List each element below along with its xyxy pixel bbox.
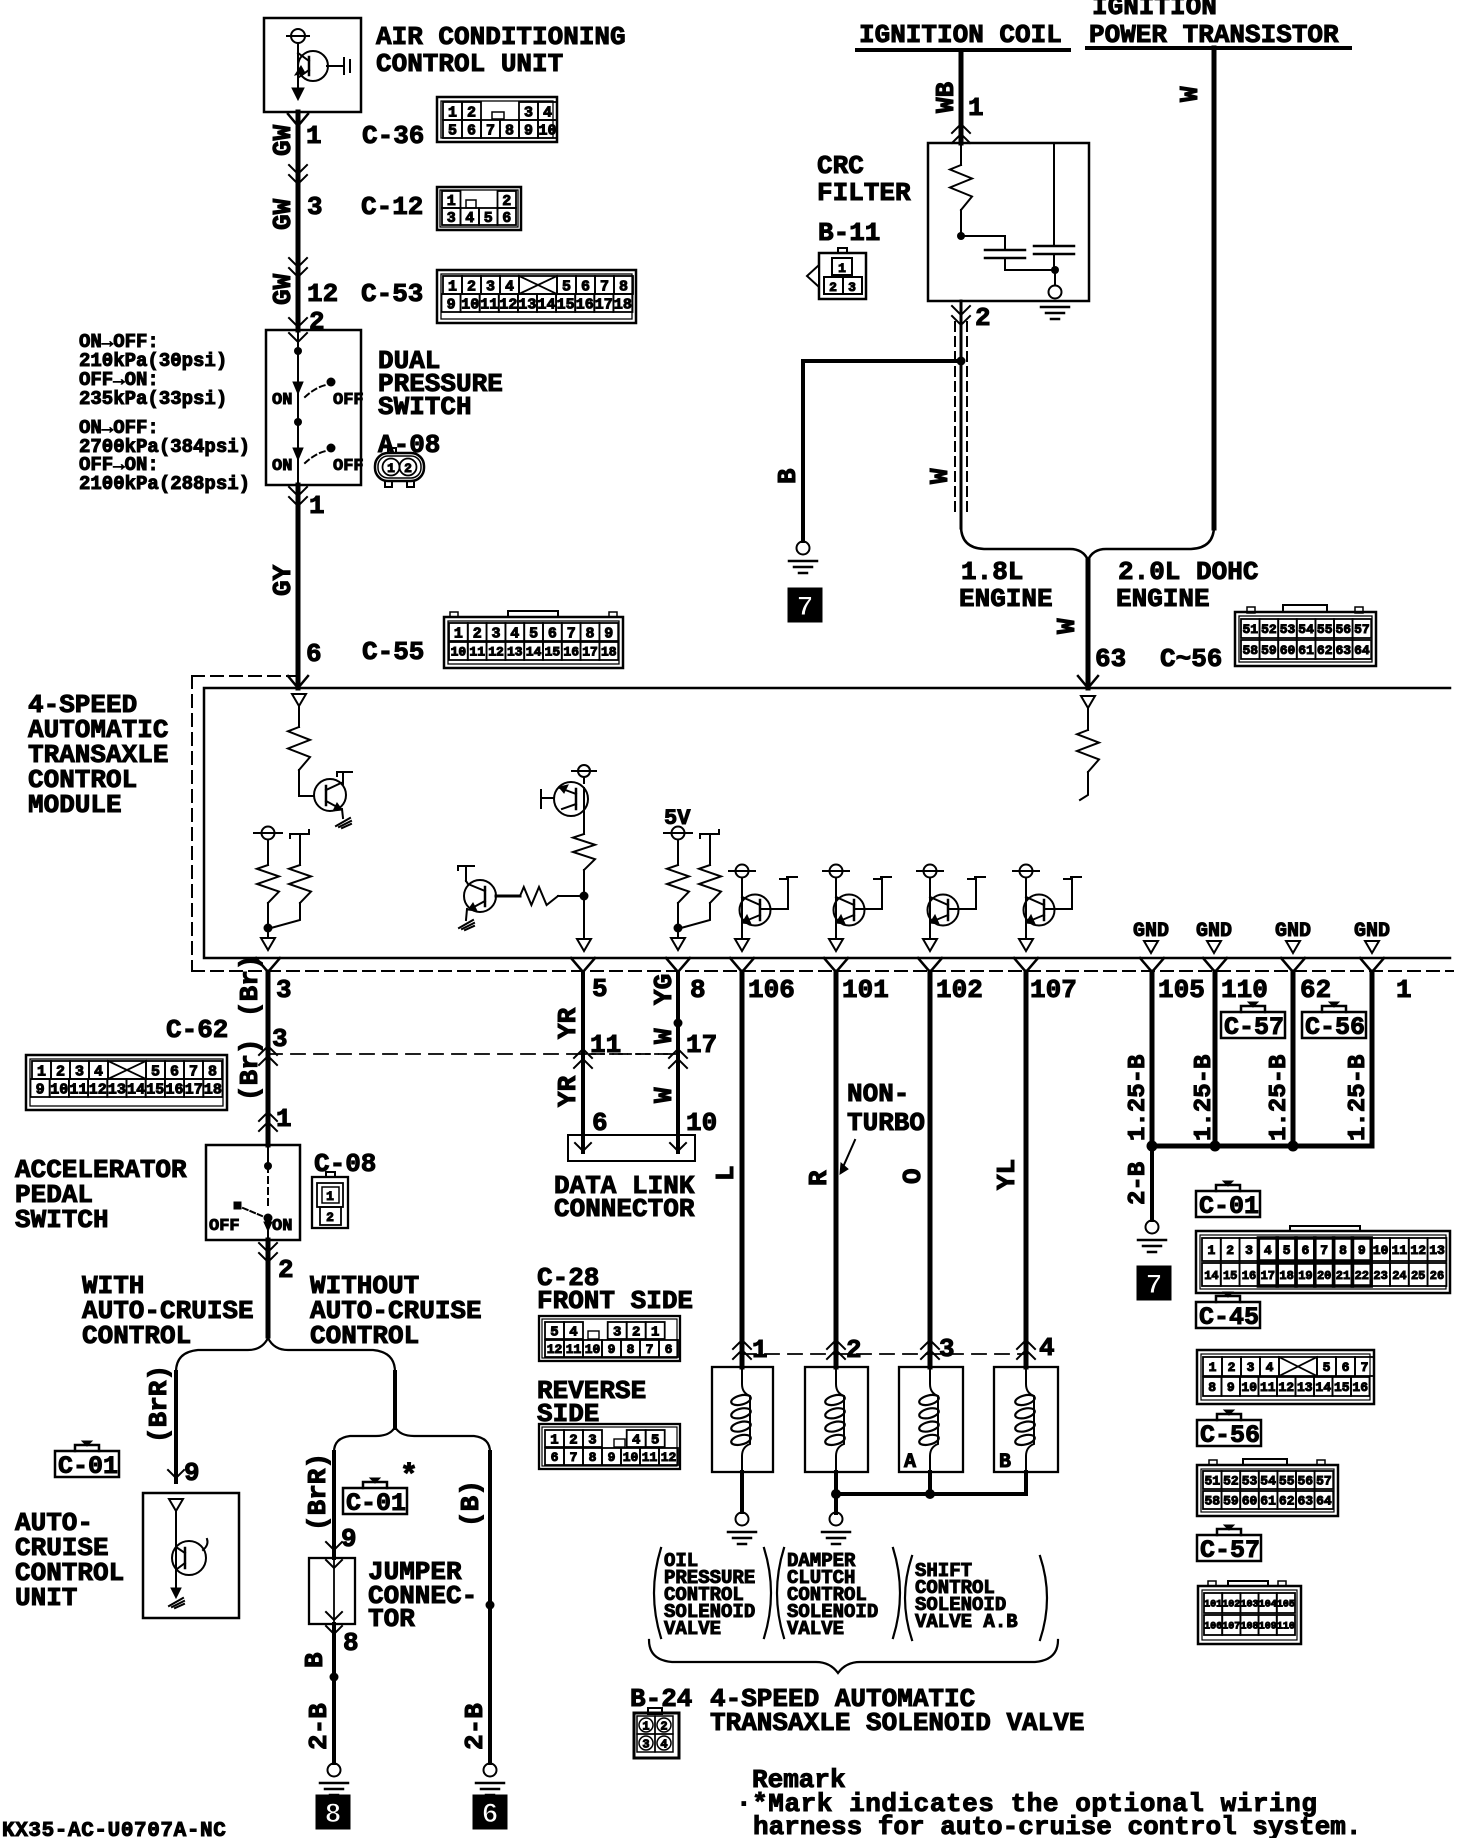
svg-text:CRC: CRC <box>817 151 864 181</box>
wire W to module pin 63 <box>1052 560 1222 688</box>
svg-text:3: 3 <box>75 1063 84 1080</box>
svg-text:1: 1 <box>387 461 395 476</box>
svg-text:7: 7 <box>567 625 576 642</box>
module internal: pin6 input transistor <box>288 694 352 828</box>
svg-text:235kPa(33psi): 235kPa(33psi) <box>79 388 227 410</box>
svg-text:63: 63 <box>1095 644 1126 674</box>
wire 2 below CRC filter (shielded) <box>952 301 970 528</box>
svg-text:12: 12 <box>661 1450 677 1465</box>
svg-text:2.0L DOHC: 2.0L DOHC <box>1118 557 1258 587</box>
svg-text:1: 1 <box>968 93 984 123</box>
svg-text:5: 5 <box>651 1433 659 1449</box>
svg-text:C-45: C-45 <box>1199 1303 1259 1332</box>
svg-text:102: 102 <box>936 975 983 1005</box>
svg-text:3: 3 <box>276 975 292 1005</box>
ground in CRC filter <box>1041 266 1069 319</box>
svg-text:GND: GND <box>1133 920 1169 943</box>
labels DATA LINK CONNECTOR <box>554 1171 695 1224</box>
connector C-56 flag (upper) <box>1302 1002 1366 1042</box>
svg-text:3: 3 <box>939 1334 955 1364</box>
svg-text:WB: WB <box>931 81 961 113</box>
svg-text:13: 13 <box>507 645 523 660</box>
svg-text:W: W <box>649 1087 679 1103</box>
svg-text:1: 1 <box>1207 1243 1215 1258</box>
svg-text:105: 105 <box>1277 1600 1295 1611</box>
ground (jumper branch) <box>320 1764 348 1796</box>
svg-text:4: 4 <box>94 1063 103 1080</box>
svg-text:CONNECTOR: CONNECTOR <box>554 1194 695 1224</box>
svg-text:C-53: C-53 <box>361 279 423 309</box>
svg-text:ON: ON <box>272 457 292 476</box>
wire pin2 of pedal switch <box>259 1240 294 1336</box>
svg-text:6: 6 <box>548 625 557 642</box>
svg-text:2: 2 <box>473 625 482 642</box>
svg-text:2: 2 <box>278 1255 294 1285</box>
svg-text:18: 18 <box>614 296 632 313</box>
svg-text:16: 16 <box>165 1081 183 1098</box>
svg-text:3: 3 <box>642 1738 649 1752</box>
svg-text:1: 1 <box>276 1104 292 1134</box>
svg-text:FILTER: FILTER <box>817 178 911 208</box>
svg-text:SWITCH: SWITCH <box>15 1205 109 1235</box>
svg-text:12: 12 <box>488 645 504 660</box>
svg-text:FRONT SIDE: FRONT SIDE <box>537 1286 693 1316</box>
dash-dot tie line at DLC <box>583 1053 681 1055</box>
module internal: driver transistor Q1 (pin 106) <box>729 865 797 952</box>
svg-text:1: 1 <box>448 278 457 295</box>
connector C-28 reverse side <box>537 1376 646 1429</box>
svg-text:B-11: B-11 <box>818 218 880 248</box>
svg-text:6: 6 <box>482 1800 499 1831</box>
svg-text:13: 13 <box>1297 1380 1313 1395</box>
svg-text:3: 3 <box>1245 1243 1253 1258</box>
resistor in CRC filter <box>950 143 972 236</box>
svg-text:2: 2 <box>467 104 476 121</box>
svg-text:11: 11 <box>69 1081 87 1098</box>
wire 1.25-B (pin 62) <box>1281 958 1305 1146</box>
pin labels 105 110 62 1 <box>1158 975 1412 1005</box>
svg-text:C-57: C-57 <box>1200 1536 1260 1565</box>
wire (Br) pin3 down to accelerator pedal switch <box>256 958 280 1145</box>
svg-text:NON-: NON- <box>847 1079 909 1109</box>
svg-text:105: 105 <box>1158 975 1205 1005</box>
svg-text:17: 17 <box>595 296 613 313</box>
module internal: driver transistor Q4 (pin 107) <box>1013 865 1081 952</box>
connector B-11 <box>807 248 866 299</box>
ground ref 7 (black box) <box>788 588 822 624</box>
wire B to ground with 7 <box>803 357 966 542</box>
svg-text:TOR: TOR <box>368 1604 415 1634</box>
svg-text:60: 60 <box>1280 643 1296 658</box>
label: AIR CONDITIONING CONTROL UNIT <box>376 22 626 79</box>
svg-text:7: 7 <box>189 1063 198 1080</box>
svg-text:107: 107 <box>1222 1622 1240 1633</box>
svg-text:TURBO: TURBO <box>847 1108 925 1138</box>
svg-text:14: 14 <box>1315 1380 1331 1395</box>
svg-text:61: 61 <box>1260 1494 1276 1509</box>
svg-text:18: 18 <box>1279 1269 1293 1283</box>
svg-text:56: 56 <box>1335 622 1351 637</box>
svg-text:5: 5 <box>529 625 538 642</box>
svg-text:9: 9 <box>36 1081 45 1098</box>
svg-text:11: 11 <box>480 296 498 313</box>
svg-text:54: 54 <box>1260 1474 1276 1489</box>
connector C-36 <box>362 97 557 151</box>
svg-text:16: 16 <box>1242 1269 1256 1283</box>
svg-text:110: 110 <box>1221 975 1268 1005</box>
svg-text:55: 55 <box>1317 622 1333 637</box>
svg-text:15: 15 <box>557 296 575 313</box>
connector C-57 flag (upper) <box>1221 1002 1285 1042</box>
svg-text:9: 9 <box>604 625 613 642</box>
pressure value labels <box>79 331 250 495</box>
svg-text:GY: GY <box>268 564 298 596</box>
svg-text:5: 5 <box>1283 1243 1291 1258</box>
underbrace B-24 <box>649 1640 1058 1673</box>
svg-text:2: 2 <box>660 1720 667 1734</box>
svg-text:10: 10 <box>461 296 479 313</box>
svg-text:3: 3 <box>491 625 500 642</box>
svg-text:C-12: C-12 <box>361 192 423 222</box>
svg-text:VALVE: VALVE <box>787 1618 844 1640</box>
svg-text:C-36: C-36 <box>362 121 424 151</box>
wire 1.25-B (pin 110) <box>1203 958 1227 1146</box>
ground ref 6 (black box) <box>473 1795 507 1831</box>
svg-text:KX35-AC-U0707A-NC: KX35-AC-U0707A-NC <box>2 1820 226 1838</box>
svg-text:VALVE A.B: VALVE A.B <box>915 1611 1018 1633</box>
svg-text:4: 4 <box>1264 1243 1272 1258</box>
svg-text:4: 4 <box>1039 1333 1055 1363</box>
svg-text:14: 14 <box>537 296 555 313</box>
svg-text:ENGINE: ENGINE <box>959 584 1053 614</box>
engine variant brace <box>961 526 1214 560</box>
svg-text:8: 8 <box>627 1342 635 1357</box>
data link connector box <box>568 1135 695 1161</box>
wire (B) right sub-branch to ground 6 <box>456 1452 495 1763</box>
module internal: pin5 comparator pair <box>458 765 596 951</box>
module internal: pin63 resistor <box>1077 696 1099 800</box>
svg-text:7: 7 <box>1320 1243 1328 1258</box>
wire GW from A/C unit down to dual pressure switch <box>288 112 308 330</box>
module internal: driver transistor Q3 (pin 102) <box>917 865 985 952</box>
svg-text:SWITCH: SWITCH <box>378 392 472 422</box>
connector C-08 <box>312 1149 376 1228</box>
svg-text:AIR CONDITIONING: AIR CONDITIONING <box>376 22 626 52</box>
wire YL (pin 107) to solenoid 4 <box>1014 958 1038 1367</box>
connector B-24 <box>634 1708 679 1758</box>
wire YR (pin5) to DLC pin6 <box>571 958 595 1152</box>
svg-text:8: 8 <box>690 975 706 1005</box>
svg-text:52: 52 <box>1261 622 1277 637</box>
svg-text:60: 60 <box>1242 1494 1258 1509</box>
labels AUTO-CRUISE CONTROL UNIT <box>15 1508 124 1613</box>
svg-text:2: 2 <box>467 278 476 295</box>
wire WB from ignition coil <box>952 52 970 143</box>
svg-text:6: 6 <box>170 1063 179 1080</box>
svg-text:8: 8 <box>343 1628 359 1658</box>
svg-text:10: 10 <box>538 122 556 139</box>
svg-text:4: 4 <box>510 625 519 642</box>
svg-text:64: 64 <box>1354 643 1370 658</box>
svg-text:101: 101 <box>842 975 889 1005</box>
svg-text:14: 14 <box>1204 1269 1218 1283</box>
ground bus for 105/110/62/1 <box>1147 1141 1373 1152</box>
svg-text:58: 58 <box>1242 643 1258 658</box>
svg-text:1: 1 <box>1209 1360 1217 1375</box>
svg-text:C-57: C-57 <box>1224 1013 1284 1042</box>
labels ACCELERATOR PEDAL SWITCH <box>15 1155 187 1235</box>
svg-text:3: 3 <box>307 192 323 222</box>
svg-text:62: 62 <box>1300 975 1331 1005</box>
ground (right) <box>1138 1221 1166 1253</box>
svg-text:6: 6 <box>467 122 476 139</box>
svg-text:C-56: C-56 <box>1200 1421 1260 1450</box>
connector C-12 <box>361 187 521 230</box>
svg-text:13: 13 <box>518 296 536 313</box>
svg-text:9: 9 <box>184 1458 200 1488</box>
svg-text:2-B: 2-B <box>460 1703 490 1750</box>
svg-text:59: 59 <box>1261 643 1277 658</box>
svg-text:4: 4 <box>632 1433 640 1449</box>
svg-text:12: 12 <box>547 1342 563 1357</box>
labels CRC FILTER B-11 <box>817 151 911 248</box>
jumper connector box <box>309 1558 355 1624</box>
svg-text:C-01: C-01 <box>58 1452 118 1481</box>
svg-text:GW: GW <box>268 198 298 230</box>
ground (B branch) <box>476 1764 504 1796</box>
second split brace <box>334 1427 490 1452</box>
svg-text:UNIT: UNIT <box>15 1583 77 1613</box>
svg-text:6: 6 <box>581 278 590 295</box>
svg-text:62: 62 <box>1317 643 1333 658</box>
solenoid common bus <box>831 1472 1026 1513</box>
label: 4-SPEED AUTOMATIC TRANSAXLE CONTROL MODULE <box>28 690 168 820</box>
svg-text:110: 110 <box>1277 1622 1295 1633</box>
svg-text:2: 2 <box>56 1063 65 1080</box>
svg-text:*: * <box>400 1460 418 1494</box>
svg-text:YG: YG <box>649 974 679 1005</box>
svg-text:OFF: OFF <box>333 457 364 476</box>
wire W ignition power transistor <box>1175 48 1214 528</box>
svg-text:8: 8 <box>619 278 628 295</box>
svg-text:2100kPa(288psi): 2100kPa(288psi) <box>79 473 250 495</box>
connector C-01 (left) <box>55 1441 119 1481</box>
connector C-56 pin box (lower) <box>1197 1459 1338 1516</box>
svg-text:W: W <box>1052 618 1082 634</box>
svg-text:harness for auto-cruise contro: harness for auto-cruise control system. <box>753 1812 1362 1838</box>
svg-text:7: 7 <box>646 1342 654 1357</box>
svg-text:63: 63 <box>1297 1494 1313 1509</box>
svg-text:GND: GND <box>1354 920 1390 943</box>
svg-text:11: 11 <box>590 1030 621 1060</box>
svg-text:1.25-B: 1.25-B <box>1125 1055 1152 1141</box>
svg-text:2: 2 <box>846 1335 862 1365</box>
svg-text:4: 4 <box>660 1738 667 1752</box>
svg-text:16: 16 <box>1352 1380 1368 1395</box>
svg-text:TRANSAXLE SOLENOID VALVE: TRANSAXLE SOLENOID VALVE <box>710 1708 1084 1738</box>
solenoid coil box 1 <box>712 1367 773 1472</box>
svg-text:1: 1 <box>448 104 457 121</box>
labels DUAL PRESSURE SWITCH / A-08 <box>378 346 503 460</box>
svg-text:12: 12 <box>1410 1243 1426 1258</box>
svg-text:6: 6 <box>665 1342 673 1357</box>
svg-text:25: 25 <box>1411 1269 1425 1283</box>
svg-text:YR: YR <box>553 1075 583 1107</box>
svg-text:7: 7 <box>486 122 495 139</box>
svg-text:11: 11 <box>469 645 485 660</box>
wire (BrR) through jumper connector <box>326 1452 342 1558</box>
svg-text:1: 1 <box>309 491 325 521</box>
solenoid name labels (parenthesised) <box>654 1548 771 1640</box>
svg-text:10: 10 <box>585 1342 601 1357</box>
svg-text:6: 6 <box>1301 1243 1309 1258</box>
split brace with/without auto-cruise <box>176 1338 395 1372</box>
dashed tie line at solenoid pins <box>742 1353 1026 1355</box>
svg-text:C-01: C-01 <box>346 1489 406 1518</box>
svg-text:2: 2 <box>569 1433 577 1449</box>
svg-text:W: W <box>1175 86 1205 102</box>
svg-text:10: 10 <box>451 645 467 660</box>
svg-text:CONTROL UNIT: CONTROL UNIT <box>376 49 563 79</box>
svg-text:4: 4 <box>505 278 514 295</box>
svg-text:O: O <box>898 1168 928 1184</box>
svg-text:57: 57 <box>1354 622 1370 637</box>
diagram id KX35-AC-U0707A-NC <box>2 1820 226 1838</box>
svg-text:109: 109 <box>1259 1622 1277 1633</box>
connector C-55 <box>362 611 623 668</box>
svg-text:15: 15 <box>146 1081 164 1098</box>
svg-text:18: 18 <box>601 645 617 660</box>
svg-text:W: W <box>649 1028 679 1044</box>
svg-text:GW: GW <box>268 124 298 156</box>
svg-text:64: 64 <box>1316 1494 1332 1509</box>
svg-text:(Br): (Br) <box>235 1039 265 1101</box>
svg-text:4: 4 <box>465 210 474 227</box>
svg-text:B: B <box>773 468 803 484</box>
svg-text:21: 21 <box>1336 1269 1350 1283</box>
svg-text:1.25-B: 1.25-B <box>1191 1055 1218 1141</box>
svg-text:22: 22 <box>1355 1269 1369 1283</box>
capacitor C2 in CRC filter <box>1034 143 1074 270</box>
labels 1.8L ENGINE / 2.0L DOHC ENGINE <box>959 557 1053 614</box>
svg-text:7: 7 <box>570 1450 578 1465</box>
svg-text:9: 9 <box>341 1524 357 1554</box>
svg-text:12: 12 <box>499 296 517 313</box>
svg-text:14: 14 <box>526 645 542 660</box>
svg-text:11: 11 <box>642 1450 658 1465</box>
svg-text:13: 13 <box>1429 1243 1445 1258</box>
svg-text:(B): (B) <box>456 1480 486 1527</box>
svg-text:12: 12 <box>89 1081 107 1098</box>
svg-text:10: 10 <box>1373 1243 1389 1258</box>
svg-text:9: 9 <box>608 1342 616 1357</box>
svg-text:2: 2 <box>1228 1360 1236 1375</box>
svg-text:YL: YL <box>992 1159 1022 1190</box>
svg-text:8: 8 <box>208 1063 217 1080</box>
svg-text:106: 106 <box>1204 1622 1222 1633</box>
svg-text:C-62: C-62 <box>166 1015 228 1045</box>
svg-text:17: 17 <box>686 1030 717 1060</box>
module internal: driver transistor Q2 (pin 101) <box>823 865 891 952</box>
label NON-TURBO with arrow <box>840 1079 925 1174</box>
ON/OFF labels in switch <box>272 391 364 476</box>
svg-text:3: 3 <box>524 104 533 121</box>
svg-text:20: 20 <box>1317 1269 1331 1283</box>
svg-text:24: 24 <box>1392 1269 1406 1283</box>
wire GY to module pin 6 <box>289 485 307 688</box>
svg-text:10: 10 <box>1241 1380 1257 1395</box>
svg-text:61: 61 <box>1298 643 1314 658</box>
svg-text:3: 3 <box>613 1325 621 1341</box>
svg-text:51: 51 <box>1204 1474 1220 1489</box>
svg-text:7: 7 <box>600 278 609 295</box>
svg-text:15: 15 <box>545 645 561 660</box>
svg-text:1: 1 <box>651 1325 659 1341</box>
connector C-57 pin box (lower) <box>1198 1581 1301 1644</box>
svg-text:A: A <box>904 1451 916 1474</box>
wire YG/W (pin8) to DLC pin10 <box>666 958 690 1152</box>
svg-text:5: 5 <box>592 974 608 1004</box>
svg-text:IGNITION COIL: IGNITION COIL <box>859 20 1062 50</box>
svg-text:12: 12 <box>307 279 338 309</box>
svg-text:3: 3 <box>272 1024 288 1054</box>
svg-text:1: 1 <box>838 261 846 276</box>
svg-text:5: 5 <box>562 278 571 295</box>
svg-text:17: 17 <box>1261 1269 1275 1283</box>
connector C-45 flag <box>1196 1292 1260 1332</box>
svg-text:12: 12 <box>1278 1380 1294 1395</box>
ground ref 8 (black box) <box>316 1795 350 1831</box>
svg-text:CONTROL: CONTROL <box>82 1321 191 1351</box>
svg-text:18: 18 <box>204 1081 222 1098</box>
svg-text:9: 9 <box>608 1450 616 1465</box>
label IGNITION POWER TRANSISTOR <box>1087 0 1350 50</box>
svg-text:8: 8 <box>325 1800 342 1831</box>
connector C-53 <box>361 270 636 323</box>
wire 1.25-B (pin 105) <box>1140 958 1164 1146</box>
svg-text:6: 6 <box>306 639 322 669</box>
svg-text:VALVE: VALVE <box>664 1618 721 1640</box>
wire (BrR) to auto-cruise control unit <box>168 1372 184 1482</box>
svg-text:ON: ON <box>272 391 292 410</box>
svg-text:1: 1 <box>752 1335 768 1365</box>
svg-text:R: R <box>804 1170 834 1186</box>
svg-text:C-08: C-08 <box>314 1149 376 1179</box>
ground (solenoid 1) <box>728 1513 756 1545</box>
svg-text:9: 9 <box>1358 1243 1366 1258</box>
svg-text:4: 4 <box>1266 1360 1274 1375</box>
svg-text:8: 8 <box>505 122 514 139</box>
svg-text:1: 1 <box>306 121 322 151</box>
ground (solenoid bus) <box>822 1513 850 1545</box>
GND pins inside module <box>1133 920 1390 953</box>
svg-text:3: 3 <box>588 1433 596 1449</box>
svg-text:54: 54 <box>1298 622 1314 637</box>
svg-text:11: 11 <box>1392 1243 1408 1258</box>
svg-text:5: 5 <box>1323 1360 1331 1375</box>
svg-text:11: 11 <box>1260 1380 1276 1395</box>
svg-text:2-B: 2-B <box>304 1703 334 1750</box>
svg-text:IGNITION: IGNITION <box>1092 0 1217 22</box>
svg-text:6: 6 <box>551 1450 559 1465</box>
svg-text:2: 2 <box>975 303 991 333</box>
svg-text:C-56: C-56 <box>1305 1013 1365 1042</box>
svg-text:10: 10 <box>50 1081 68 1098</box>
connector A-08 oval 1 2 <box>375 448 424 487</box>
svg-text:(BrR): (BrR) <box>303 1453 333 1531</box>
wire 2-B to ground 7 <box>1125 1146 1152 1220</box>
svg-text:2: 2 <box>1226 1243 1234 1258</box>
